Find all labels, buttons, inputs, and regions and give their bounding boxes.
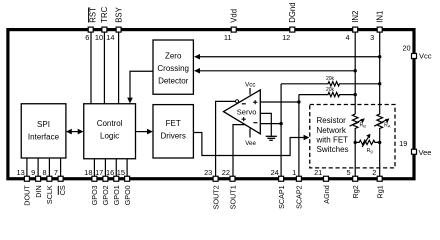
resistor Rg xyxy=(355,140,380,144)
svg-text:3: 3 xyxy=(370,33,374,42)
svg-text:Vee: Vee xyxy=(245,140,256,147)
svg-text:14: 14 xyxy=(106,33,114,42)
arrowhead RB xyxy=(360,118,365,123)
svg-text:TRC: TRC xyxy=(100,6,109,22)
block text labels xyxy=(28,52,349,155)
svg-text:Rg: Rg xyxy=(367,148,373,154)
arrowhead into Control Logic xyxy=(127,98,133,104)
op-amp U1 servo triangle xyxy=(224,90,261,134)
pin 2 Rg1 square xyxy=(377,176,382,181)
svg-text:IN2: IN2 xyxy=(351,11,360,23)
svg-text:GPO2: GPO2 xyxy=(101,185,110,205)
svg-text:SCAP2: SCAP2 xyxy=(295,185,304,209)
junction dot 20k lower IN2 xyxy=(354,93,357,96)
pin 5 Rg2 square xyxy=(353,176,358,181)
svg-text:2: 2 xyxy=(372,168,376,177)
svg-text:5: 5 xyxy=(346,168,350,177)
svg-text:SCAP1: SCAP1 xyxy=(277,185,286,209)
svg-text:GPO1: GPO1 xyxy=(112,185,121,205)
svg-text:12: 12 xyxy=(282,33,290,42)
resistor 20k lower xyxy=(299,92,355,96)
wire FET Drivers to resistor network xyxy=(193,133,303,156)
svg-text:13: 13 xyxy=(16,168,24,177)
junction dot Rg left xyxy=(354,141,357,144)
svg-text:19: 19 xyxy=(399,139,407,148)
svg-text:1: 1 xyxy=(292,168,296,177)
wire servo inverting input xyxy=(260,123,281,125)
svg-text:22: 22 xyxy=(222,168,230,177)
wire IN2 ZCD input xyxy=(200,70,356,72)
svg-text:CS: CS xyxy=(58,185,67,195)
servo minus sign bottom xyxy=(253,122,257,124)
pin 1 SCAP2 square xyxy=(296,176,301,181)
svg-text:SPI: SPI xyxy=(37,120,50,129)
wire Zero Crossing Detector to Control Logic xyxy=(130,71,153,98)
svg-text:Vee: Vee xyxy=(419,148,432,157)
pin 24 SCAP1 square xyxy=(279,176,284,181)
shaft SPI-CL double arrow xyxy=(68,131,82,133)
svg-text:Detector: Detector xyxy=(158,76,189,85)
pin 22 SOUT1 square xyxy=(230,176,235,181)
arrow through RB xyxy=(350,120,362,126)
svg-text:SOUT2: SOUT2 xyxy=(211,185,220,209)
svg-text:Rg1: Rg1 xyxy=(376,185,385,198)
overline RST xyxy=(88,8,90,23)
svg-text:AGnd: AGnd xyxy=(322,185,331,203)
pin 17 GPO2 square xyxy=(103,176,108,181)
arrowhead SPI-CL right xyxy=(78,129,84,135)
svg-text:DGnd: DGnd xyxy=(288,2,297,22)
junction dot Rg right xyxy=(378,141,381,144)
rotated pin name labels bottom xyxy=(23,185,385,210)
svg-text:SOUT1: SOUT1 xyxy=(228,185,237,209)
pin 4 IN2 square xyxy=(353,27,358,32)
servo inverting bubble xyxy=(235,100,238,103)
svg-text:7: 7 xyxy=(54,168,58,177)
svg-text:21: 21 xyxy=(314,168,322,177)
svg-text:Vcc: Vcc xyxy=(245,82,255,89)
pin 14 BSY square xyxy=(116,27,121,32)
svg-text:IN1: IN1 xyxy=(376,11,385,23)
svg-text:8: 8 xyxy=(42,168,46,177)
wire RST pin6 to Control Logic xyxy=(90,31,92,104)
svg-text:Network: Network xyxy=(317,126,347,135)
svg-text:10: 10 xyxy=(95,33,103,42)
junction dot 20k upper IN1 xyxy=(378,82,381,85)
junction dot servo plus SCAP2 xyxy=(297,100,300,103)
block FET Drivers xyxy=(153,105,193,158)
svg-text:16: 16 xyxy=(106,168,114,177)
pin 9 DIN square xyxy=(36,176,41,181)
pin 6 RST square xyxy=(88,27,93,32)
svg-text:GPO0: GPO0 xyxy=(123,185,132,205)
wire SPI to pin 9 xyxy=(37,158,39,176)
svg-text:17: 17 xyxy=(95,168,103,177)
wire IN2 vertical net xyxy=(354,31,356,114)
svg-text:Interface: Interface xyxy=(28,132,60,141)
wire servo Vee rail xyxy=(249,128,251,137)
block Zero Crossing Detector xyxy=(153,40,193,94)
pin 13 DOUT square xyxy=(24,176,29,181)
resistor RA with wire to Rg1 pin 2 xyxy=(377,114,383,176)
wire servo bottom input to SOUT1 xyxy=(233,125,245,176)
pin 3 IN1 square xyxy=(377,27,382,32)
rotated pin name labels top xyxy=(88,2,384,22)
wire servo bubble to SOUT2 xyxy=(216,101,236,176)
svg-text:Vdd: Vdd xyxy=(230,9,239,23)
svg-text:BSY: BSY xyxy=(114,6,123,22)
junction dot IN1 ZCD line xyxy=(378,55,381,58)
wire SCAP1 vertical xyxy=(280,84,282,176)
block Control Logic xyxy=(84,104,136,159)
svg-text:Control: Control xyxy=(97,119,123,128)
servo minus sign top xyxy=(242,103,246,105)
arrowhead SPI-CL left xyxy=(66,129,72,135)
pin 21 AGnd square xyxy=(324,176,329,181)
svg-text:24: 24 xyxy=(271,168,279,177)
arrowhead into ZCD upper xyxy=(194,54,200,60)
pin 18 GPO3 square xyxy=(92,176,97,181)
pin 20 Vcc square xyxy=(412,54,417,59)
wire IN1 vertical net xyxy=(379,31,381,114)
pin 19 Vee square xyxy=(412,149,417,154)
overline CS xyxy=(57,186,59,195)
arrowhead into ZCD lower xyxy=(194,68,200,74)
svg-text:Servo: Servo xyxy=(237,108,257,117)
wire servo noninverting input xyxy=(260,101,299,103)
svg-text:with FET: with FET xyxy=(316,135,349,144)
pin 15 GPO0 square xyxy=(125,176,130,181)
svg-text:20: 20 xyxy=(402,44,410,53)
wire TRC pin10 to Control Logic xyxy=(103,31,105,104)
arrowhead Rg xyxy=(366,134,370,138)
pin 16 GPO1 square xyxy=(114,176,119,181)
svg-text:DOUT: DOUT xyxy=(23,185,32,206)
wire Control Logic to pin 16 xyxy=(115,159,117,176)
ground symbol xyxy=(266,136,277,140)
resistor RB with wire to Rg2 pin 5 xyxy=(352,114,358,176)
arrowhead into resistor network xyxy=(304,135,310,141)
svg-text:Logic: Logic xyxy=(100,132,119,141)
svg-text:Vcc: Vcc xyxy=(419,51,432,60)
svg-text:11: 11 xyxy=(224,33,232,42)
resistor value labels xyxy=(326,76,335,93)
arrow through Rg xyxy=(362,137,368,147)
wire Control Logic to pin 18 xyxy=(93,159,95,176)
svg-text:6: 6 xyxy=(85,33,89,42)
svg-text:4: 4 xyxy=(345,33,349,42)
wire BSY pin14 to Control Logic xyxy=(118,31,120,104)
svg-text:9: 9 xyxy=(31,168,35,177)
junction dot servo minus SCAP1 xyxy=(279,122,282,125)
pin squares xyxy=(24,27,416,181)
wire SCAP2 vertical xyxy=(298,95,300,176)
pin 7 CS square xyxy=(58,176,63,181)
arrowhead CL to FET xyxy=(147,129,153,135)
shaft CL-FET arrow xyxy=(136,131,150,133)
svg-text:Drivers: Drivers xyxy=(161,132,186,141)
wire SPI to pin 8 xyxy=(48,158,50,176)
svg-text:Switches: Switches xyxy=(317,145,349,154)
block SPI Interface xyxy=(21,104,66,158)
svg-text:Zero: Zero xyxy=(165,52,182,61)
wire IN1 ZCD input xyxy=(200,56,380,58)
pin 8 SCLK square xyxy=(47,176,52,181)
svg-text:Rg2: Rg2 xyxy=(351,185,360,198)
svg-text:DIN: DIN xyxy=(34,185,43,197)
dashed box resistor network xyxy=(310,105,395,168)
pin 10 TRC square xyxy=(102,27,107,32)
svg-text:23: 23 xyxy=(204,168,212,177)
wire Control Logic to pin 17 xyxy=(104,159,106,176)
svg-text:20k: 20k xyxy=(326,76,335,82)
svg-text:20k: 20k xyxy=(326,87,335,93)
svg-text:RB: RB xyxy=(360,123,367,129)
pin number labels xyxy=(16,33,410,177)
wire Control Logic to pin 15 xyxy=(126,159,128,176)
pin 23 SOUT2 square xyxy=(213,176,218,181)
chip outer border xyxy=(8,30,414,179)
servo plus sign top xyxy=(253,100,257,104)
servo plus sign bottom xyxy=(242,117,246,121)
pin 12 DGnd square xyxy=(290,27,295,32)
wire SPI to pin 13 xyxy=(26,158,28,176)
svg-text:15: 15 xyxy=(117,168,125,177)
svg-text:SCLK: SCLK xyxy=(45,185,54,204)
pin 11 Vdd square xyxy=(231,27,236,32)
arrowhead RA xyxy=(385,118,390,123)
svg-text:18: 18 xyxy=(84,168,92,177)
junction dot IN2 ZCD line xyxy=(354,69,357,72)
svg-text:RA: RA xyxy=(384,123,391,129)
side pin labels xyxy=(419,51,432,157)
servo rail labels xyxy=(245,82,256,147)
svg-text:Resistor: Resistor xyxy=(317,116,347,125)
wire servo ground reference xyxy=(260,113,271,135)
svg-text:GPO3: GPO3 xyxy=(90,185,99,205)
svg-text:Crossing: Crossing xyxy=(157,64,189,73)
arrow through RA xyxy=(374,120,386,126)
svg-text:FET: FET xyxy=(166,119,181,128)
wire servo Vcc rail xyxy=(249,88,251,95)
wire SPI to pin 7 xyxy=(60,158,62,176)
svg-text:RST: RST xyxy=(88,7,97,23)
resistor 20k upper xyxy=(281,82,380,86)
